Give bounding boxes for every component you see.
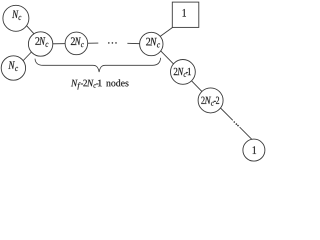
node H circle 1 bottom-right: [243, 139, 265, 161]
node F circle 2Nc-1: [171, 60, 196, 85]
wire A-C: [25, 24, 34, 34]
wire B-C: [22, 52, 32, 62]
wire D-dots stub: [76, 42, 98, 44]
node SQ square 1 flavour node: [172, 2, 199, 27]
node D circle 2Nc second: [65, 32, 88, 55]
value label 1 of node H: [253, 146, 256, 154]
value label 1 of square node: [183, 9, 186, 17]
wire E-F: [161, 51, 177, 67]
brace label Nf-2Nc-1 nodes: [71, 79, 129, 89]
node B circle Nc mid-left: [1, 56, 25, 80]
wire C-D: [41, 42, 77, 45]
value label 2Nc of node D: [71, 37, 84, 47]
node E circle 2Nc third: [140, 32, 163, 55]
node C circle 2Nc first: [28, 32, 52, 56]
ellipsis dots diagonal: [234, 121, 239, 126]
value label 2Nc of node C: [35, 37, 48, 47]
brace under middle nodes: [35, 58, 161, 72]
wire dots-H solid part: [240, 127, 252, 139]
wire E-square: [160, 27, 173, 36]
value label 2Nc of node E: [146, 38, 160, 48]
wire dots-E stub: [127, 42, 151, 45]
value label Nc of node A: [12, 10, 21, 20]
value label Nc of node B: [8, 61, 18, 71]
value label 2Nc-2 of node G: [201, 97, 219, 106]
wire F-G: [183, 72, 211, 101]
ellipsis dots horizontal: [108, 42, 117, 44]
node A circle Nc top-left: [3, 5, 29, 31]
wire G-dots solid part: [216, 104, 233, 121]
value label 2Nc-1 of node F: [174, 68, 191, 77]
node G circle 2Nc-2: [198, 88, 223, 113]
